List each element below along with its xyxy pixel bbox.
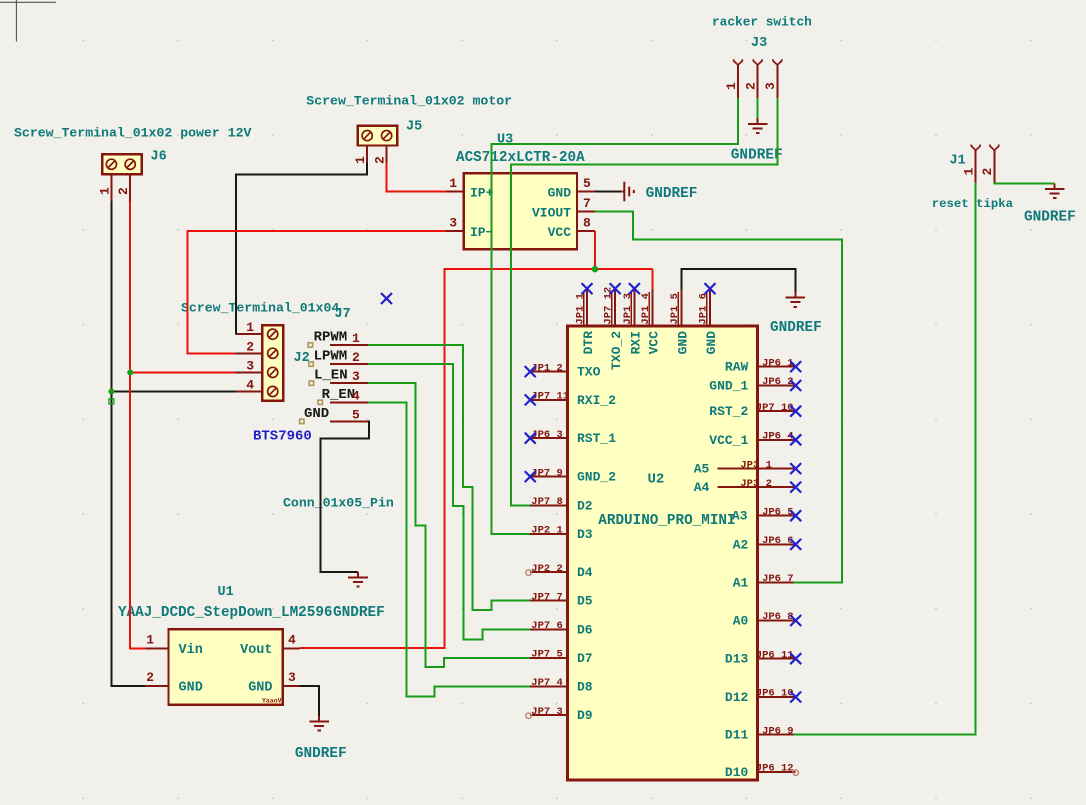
svg-text:VCC: VCC xyxy=(647,331,662,355)
svg-text:JP1_4: JP1_4 xyxy=(640,293,652,325)
svg-text:JP7_3: JP7_3 xyxy=(531,706,563,718)
J7 pin 2 xyxy=(236,339,263,354)
J2 pin 1 RPWM xyxy=(308,330,368,348)
U1 pin 4 Vout xyxy=(240,632,299,658)
IC U3 ACS712xLCTR-20A current sensor xyxy=(456,133,585,250)
wire J6.1 to U1.2 GND (black vertical) xyxy=(111,201,145,686)
connector J7 Screw_Terminal_01x04 xyxy=(181,301,351,401)
svg-text:D4: D4 xyxy=(577,565,593,580)
svg-text:1: 1 xyxy=(724,82,739,90)
svg-text:JP6_12: JP6_12 xyxy=(756,763,794,775)
U2 right pin RAW label JP6_1 xyxy=(725,357,801,374)
svg-text:Vin: Vin xyxy=(179,643,203,658)
U3 pin 5 GND xyxy=(548,176,595,200)
svg-text:J1: J1 xyxy=(950,154,966,169)
svg-text:GND: GND xyxy=(248,681,272,696)
J6 pin 2 xyxy=(116,174,131,201)
svg-text:GNDREF: GNDREF xyxy=(333,605,385,621)
wire branch junction to J7.4 xyxy=(111,391,235,393)
svg-text:L_EN: L_EN xyxy=(314,368,348,384)
svg-text:JP7_5: JP7_5 xyxy=(531,649,563,661)
svg-text:U3: U3 xyxy=(497,133,513,148)
U2 top pin DTR label JP1_1 xyxy=(574,283,596,354)
J2 pin 2 LPWM xyxy=(309,349,368,367)
svg-text:4: 4 xyxy=(288,632,296,647)
wire J1.1 to U2 D11 xyxy=(794,183,976,735)
wire U3.3 IP- to J7.2 xyxy=(188,231,447,353)
svg-text:8: 8 xyxy=(583,216,591,231)
wire U3.5 GND to GNDREF xyxy=(595,191,621,193)
svg-text:BTS7960: BTS7960 xyxy=(253,429,312,445)
sheet corner border marks xyxy=(0,0,56,42)
svg-text:JP6_4: JP6_4 xyxy=(762,431,794,443)
svg-text:YaaoV: YaaoV xyxy=(262,698,282,705)
svg-text:Vout: Vout xyxy=(240,643,272,658)
U2 top pin GND label JP1_5 xyxy=(669,289,691,355)
svg-text:JP1_5: JP1_5 xyxy=(669,293,681,325)
svg-text:3: 3 xyxy=(352,369,360,384)
svg-text:D8: D8 xyxy=(577,680,593,695)
U2 right pin D12 label JP6_10 xyxy=(725,688,801,705)
svg-text:D7: D7 xyxy=(577,651,593,666)
svg-text:1: 1 xyxy=(146,632,154,647)
wire VCC rail to U1.4 Vout and U2 VCC xyxy=(300,269,653,648)
svg-text:2: 2 xyxy=(352,350,360,365)
J3 pin 1 xyxy=(724,59,743,98)
svg-text:Screw_Terminal_01x04: Screw_Terminal_01x04 xyxy=(181,301,339,316)
svg-text:JP2_1: JP2_1 xyxy=(531,525,563,537)
J3 pin 3 xyxy=(763,59,782,98)
svg-text:4: 4 xyxy=(352,388,360,403)
svg-text:JP3_2: JP3_2 xyxy=(740,478,772,490)
svg-text:JP6_9: JP6_9 xyxy=(762,725,794,737)
svg-text:D13: D13 xyxy=(725,652,749,667)
svg-text:RPWM: RPWM xyxy=(314,330,348,346)
J2 pin 4 R_EN xyxy=(318,387,368,405)
svg-text:J7: J7 xyxy=(335,307,351,322)
svg-text:TXO_2: TXO_2 xyxy=(609,331,624,370)
J6 pin 1 xyxy=(97,174,112,201)
U2 right pin GND_1 label JP6_2 xyxy=(709,376,801,393)
svg-text:VCC_1: VCC_1 xyxy=(709,433,748,448)
svg-text:IP−: IP− xyxy=(470,225,494,240)
J7 pin 1 xyxy=(236,320,263,335)
svg-text:GND: GND xyxy=(704,331,719,355)
svg-text:A1: A1 xyxy=(733,575,749,590)
svg-text:JP7_7: JP7_7 xyxy=(531,591,563,603)
svg-text:JP1_2: JP1_2 xyxy=(531,362,563,374)
orphan no-connect mark xyxy=(381,293,392,304)
U2 right pin D10 label JP6_12 xyxy=(725,763,799,780)
svg-text:GND_1: GND_1 xyxy=(709,379,748,394)
svg-text:TXO: TXO xyxy=(577,365,601,380)
svg-text:GNDREF: GNDREF xyxy=(770,320,822,336)
wire J3.3 to U2 D2 xyxy=(511,98,778,506)
U2 left pin D2 label JP7_8 xyxy=(530,496,593,513)
J7 pin 3 xyxy=(236,358,263,373)
svg-text:JP6_6: JP6_6 xyxy=(762,535,794,547)
J1 pin 2 xyxy=(980,145,999,183)
svg-text:J5: J5 xyxy=(406,120,422,135)
svg-text:JP6_1: JP6_1 xyxy=(762,357,794,369)
svg-text:RST_2: RST_2 xyxy=(709,404,748,419)
U3 pin 8 VCC xyxy=(548,216,595,240)
svg-text:Screw_Terminal_01x02 power 12V: Screw_Terminal_01x02 power 12V xyxy=(14,126,251,141)
svg-text:D10: D10 xyxy=(725,765,749,780)
svg-text:2: 2 xyxy=(744,82,759,90)
svg-text:GND: GND xyxy=(548,185,572,200)
U2 left pin D3 label JP2_1 xyxy=(530,525,593,542)
svg-text:JP6_5: JP6_5 xyxy=(762,506,794,518)
svg-text:1: 1 xyxy=(353,156,368,164)
svg-text:D5: D5 xyxy=(577,594,593,609)
svg-text:2: 2 xyxy=(980,168,995,176)
svg-text:5: 5 xyxy=(583,176,591,191)
U1 pin 1 Vin xyxy=(146,632,203,658)
svg-text:3: 3 xyxy=(246,358,254,373)
wire U2 GND top pin to ground xyxy=(682,269,796,292)
svg-text:2: 2 xyxy=(372,156,387,164)
connector J5 Screw_Terminal_01x02 motor xyxy=(306,94,512,146)
U3 pin 7 VIOUT xyxy=(532,196,595,220)
U2 left pin D4 label JP2_2 xyxy=(526,563,593,580)
svg-text:RST_1: RST_1 xyxy=(577,431,616,446)
wire U3.8 VCC down to junction xyxy=(594,231,596,269)
svg-text:4: 4 xyxy=(246,378,254,393)
wire J2.3 L_EN to U2 D7 xyxy=(368,383,530,667)
U2 right pin D13 label JP6_11 xyxy=(725,649,801,666)
svg-text:IP+: IP+ xyxy=(470,185,494,200)
svg-text:VCC: VCC xyxy=(548,225,572,240)
U2 right pin A0 label JP6_8 xyxy=(733,611,802,628)
svg-text:JP6_10: JP6_10 xyxy=(756,688,794,700)
U2 right pin A5 label JP3_1 xyxy=(694,459,802,476)
svg-text:D6: D6 xyxy=(577,622,593,637)
J5 pin 1 xyxy=(353,146,368,165)
J2 pin 3 L_EN xyxy=(309,368,368,386)
svg-text:2: 2 xyxy=(246,339,254,354)
wire J3.1 to U2 D3 xyxy=(491,98,738,534)
J3 pin 2 xyxy=(744,59,763,98)
U3 pin 1 IP+ xyxy=(446,176,493,200)
U2 left pin D8 label JP7_4 xyxy=(530,677,593,694)
svg-text:D12: D12 xyxy=(725,690,749,705)
U2 right pin A1 label JP6_7 xyxy=(733,573,796,590)
svg-text:LPWM: LPWM xyxy=(314,349,348,365)
wire end marker square xyxy=(109,399,114,404)
wire J2.1 RPWM to U2 D5 xyxy=(368,345,530,610)
ground symbol GNDREF at U1 xyxy=(309,716,329,731)
wire J6.2 to U1.1 Vin (red vertical) xyxy=(130,201,146,648)
junction at VCC rail xyxy=(592,266,598,272)
U2 right pin A2 label JP6_6 xyxy=(733,535,802,552)
svg-text:GND_2: GND_2 xyxy=(577,470,616,485)
svg-text:JP7_6: JP7_6 xyxy=(531,620,563,632)
svg-text:YAAJ_DCDC_StepDown_LM2596: YAAJ_DCDC_StepDown_LM2596 xyxy=(118,605,333,621)
svg-text:D9: D9 xyxy=(577,708,593,723)
right-facing ground symbol GNDREF at U3.5 xyxy=(621,182,697,202)
ground symbol GNDREF at J3 xyxy=(748,118,768,133)
U2 top pin GND label JP1_6 xyxy=(697,283,719,354)
svg-text:J6: J6 xyxy=(151,150,167,165)
svg-text:J2: J2 xyxy=(294,351,310,366)
svg-text:U1: U1 xyxy=(218,585,234,600)
svg-text:JP2_2: JP2_2 xyxy=(531,563,563,575)
svg-text:A5: A5 xyxy=(694,462,710,477)
svg-text:D11: D11 xyxy=(725,728,749,743)
svg-text:Screw_Terminal_01x02 motor: Screw_Terminal_01x02 motor xyxy=(306,94,512,109)
U2 top pin VCC label JP1_4 xyxy=(640,289,662,355)
U2 left pin GND_2 label JP7_9 xyxy=(525,467,617,484)
svg-text:JP7_10: JP7_10 xyxy=(756,402,794,414)
svg-text:RXI_2: RXI_2 xyxy=(577,393,616,408)
wire J1.2 to ground xyxy=(994,182,1054,185)
svg-text:RAW: RAW xyxy=(725,360,749,375)
svg-text:2: 2 xyxy=(146,670,154,685)
svg-text:GNDREF: GNDREF xyxy=(295,746,347,762)
svg-text:1: 1 xyxy=(352,331,360,346)
svg-text:GND: GND xyxy=(676,331,691,355)
svg-text:JP1_1: JP1_1 xyxy=(574,293,586,325)
U2 left pin D7 label JP7_5 xyxy=(530,649,592,666)
J5 pin 2 xyxy=(372,146,387,165)
svg-text:GNDREF: GNDREF xyxy=(731,148,783,164)
svg-text:A0: A0 xyxy=(733,614,749,629)
svg-text:1: 1 xyxy=(97,187,112,195)
svg-text:GND: GND xyxy=(304,406,329,422)
connector J6 Screw_Terminal_01x02 power 12V xyxy=(14,126,251,175)
wire J5.1 to J7.1 xyxy=(236,162,368,334)
svg-text:Conn_01x05_Pin: Conn_01x05_Pin xyxy=(283,496,394,511)
svg-text:JP6_8: JP6_8 xyxy=(762,611,794,623)
ground symbol GNDREF at J2.5 xyxy=(348,572,368,587)
svg-text:D2: D2 xyxy=(577,498,593,513)
svg-text:GNDREF: GNDREF xyxy=(1024,210,1076,226)
U3 pin 3 IP- xyxy=(446,216,493,240)
svg-text:5: 5 xyxy=(352,407,360,422)
junction at J6.2/J7.3 branch xyxy=(127,369,133,375)
svg-text:3: 3 xyxy=(449,216,457,231)
U1 pin 3 GND xyxy=(248,670,299,696)
svg-text:JP1_3: JP1_3 xyxy=(622,293,634,325)
svg-text:JP6_11: JP6_11 xyxy=(756,649,794,661)
svg-text:3: 3 xyxy=(288,670,296,685)
svg-text:A2: A2 xyxy=(733,537,749,552)
wire U1.3 to ground xyxy=(300,686,320,716)
svg-text:JP7_11: JP7_11 xyxy=(531,391,569,403)
wire branch junction to J7.3 xyxy=(130,371,235,373)
wire VCC rail to U2 VCC pin xyxy=(652,269,654,289)
svg-text:JP3_1: JP3_1 xyxy=(740,459,772,471)
IC U1 YAAJ_DCDC_StepDown_LM2596 xyxy=(118,585,333,705)
svg-text:JP6_7: JP6_7 xyxy=(762,573,794,585)
J7 pin 4 xyxy=(236,378,263,393)
svg-text:JP7_9: JP7_9 xyxy=(531,467,563,479)
U2 right pin A4 label JP3_2 xyxy=(694,478,802,495)
U2 left pin D6 label JP7_6 xyxy=(530,620,593,637)
svg-text:1: 1 xyxy=(246,320,254,335)
U2 left pin D5 label JP7_7 xyxy=(530,591,593,608)
svg-text:JP1_6: JP1_6 xyxy=(697,293,709,325)
svg-text:JP6_3: JP6_3 xyxy=(531,429,563,441)
ground symbol GNDREF at J1 xyxy=(1045,183,1065,198)
U2 top pin TXO_2 label JP7_12 xyxy=(603,283,625,370)
svg-text:D3: D3 xyxy=(577,527,593,542)
U2 left pin TXO label JP1_2 xyxy=(525,362,601,379)
svg-text:J3: J3 xyxy=(751,36,767,51)
svg-text:VIOUT: VIOUT xyxy=(532,205,571,220)
U2 right pin RST_2 label JP7_10 xyxy=(709,402,801,419)
svg-text:racker switch: racker switch xyxy=(712,15,812,30)
svg-text:3: 3 xyxy=(763,82,778,90)
wire J5.2 to U3.1 IP+ xyxy=(387,162,447,191)
U2 right pin A3 label JP6_5 xyxy=(732,506,801,523)
svg-text:JP6_2: JP6_2 xyxy=(762,376,794,388)
J1 pin 1 xyxy=(962,145,981,183)
wire U3.7 VIOUT to U2 A1 (green) xyxy=(595,212,842,583)
wire J2.5 GND to ground xyxy=(320,421,369,572)
wire J2.4 R_EN to U2 D8 xyxy=(368,402,530,696)
svg-text:ARDUINO_PRO_MINI: ARDUINO_PRO_MINI xyxy=(598,513,735,529)
svg-text:JP7_4: JP7_4 xyxy=(531,677,563,689)
U2 left pin RXI_2 label JP7_11 xyxy=(525,391,617,408)
svg-text:A4: A4 xyxy=(694,480,710,495)
connector J3 racker switch xyxy=(712,15,812,52)
U2 right pin VCC_1 label JP6_4 xyxy=(709,431,801,448)
svg-text:reset tipka: reset tipka xyxy=(932,197,1014,211)
ground symbol GNDREF at U2 top xyxy=(786,292,806,307)
svg-text:1: 1 xyxy=(449,176,457,191)
svg-text:1: 1 xyxy=(962,168,977,176)
svg-text:A3: A3 xyxy=(732,509,748,524)
svg-text:2: 2 xyxy=(116,187,131,195)
U2 right pin D11 label JP6_9 xyxy=(725,725,796,742)
svg-text:RXI: RXI xyxy=(628,331,643,354)
svg-text:U2: U2 xyxy=(648,472,665,488)
svg-text:7: 7 xyxy=(583,196,591,211)
U1 pin 2 GND xyxy=(146,670,203,696)
junction at J6.1/J7.4 branch xyxy=(108,389,114,395)
svg-text:GNDREF: GNDREF xyxy=(646,186,698,202)
U2 top pin RXI label JP1_3 xyxy=(622,283,644,354)
svg-text:DTR: DTR xyxy=(581,331,596,355)
U2 left pin D9 label JP7_3 xyxy=(526,706,593,723)
svg-text:R_EN: R_EN xyxy=(322,387,356,403)
U2 left pin RST_1 label JP6_3 xyxy=(525,429,617,446)
connector J1 reset tipka xyxy=(932,154,1014,212)
J2 pin 5 GND xyxy=(300,406,368,424)
wire J3.2 to ground xyxy=(757,98,759,118)
wire J2.2 LPWM to U2 D6 xyxy=(368,364,530,639)
IC U2 ARDUINO_PRO_MINI xyxy=(568,326,758,780)
svg-text:GND: GND xyxy=(179,681,203,696)
svg-text:JP7_8: JP7_8 xyxy=(531,496,563,508)
